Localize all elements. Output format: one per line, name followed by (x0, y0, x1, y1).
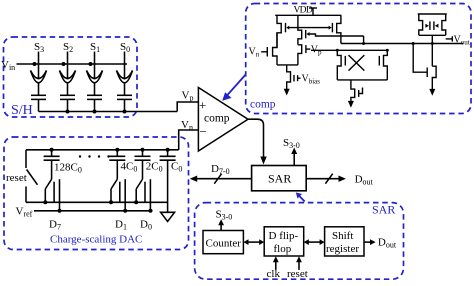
svg-text:register: register (326, 243, 359, 255)
capacitor of S3 branch (31, 83, 46, 112)
node D0 label (140, 219, 152, 232)
transistor M5 NMOS Vn input (261, 33, 277, 65)
svg-text:clk: clk (267, 268, 281, 280)
node Vin label (1, 59, 15, 72)
switch S0 label (120, 41, 130, 54)
reset label (6, 172, 27, 184)
capacitor 128C0 (44, 150, 60, 179)
node S3-0 label in SAR detail (216, 209, 233, 222)
Counter label (206, 238, 242, 250)
node Vn label (181, 119, 193, 132)
clk label (267, 268, 281, 280)
D flip-flop label (269, 230, 299, 255)
capacitor 2C0 (135, 150, 151, 179)
SAR detail dashed border (195, 203, 404, 280)
switch S2 (60, 52, 76, 83)
ground arrow output (429, 89, 435, 96)
switch S3 (31, 52, 47, 83)
VDD supply tick (309, 8, 317, 15)
node Dout label in SAR detail (378, 237, 397, 250)
node Vp label (182, 90, 194, 103)
transistor M11 PMOS output right (434, 14, 446, 35)
svg-text:SAR: SAR (268, 172, 291, 186)
svg-text:Counter: Counter (206, 238, 242, 250)
wire tail node (277, 64, 298, 66)
wire Dout bus from SAR (306, 174, 346, 184)
wire Counter to D flip-flop double arrow (243, 239, 264, 245)
transistor M8 NMOS latch right (379, 49, 389, 80)
comparator comp text (204, 113, 230, 125)
ellipsis dots (79, 155, 110, 157)
Shift register box (325, 227, 364, 256)
switch S0 (117, 52, 133, 83)
wire reset arrow (296, 256, 302, 270)
comparator plus input (199, 98, 206, 113)
reset switch (26, 150, 38, 203)
svg-text:reset: reset (287, 268, 308, 280)
switch S3 label (34, 41, 44, 54)
switch of bit D1 (111, 179, 125, 211)
op-amp comparator triangle (198, 88, 248, 152)
svg-text:reset: reset (6, 172, 27, 184)
Shift register label (326, 230, 359, 255)
wire Vref line (34, 209, 153, 213)
ground arrow bias (284, 89, 290, 96)
switch S2 label (63, 41, 73, 54)
Counter box (203, 231, 243, 254)
wire latch source rail (337, 79, 387, 81)
wire Vin rail (17, 63, 128, 65)
wire comparator output to SAR (248, 119, 267, 164)
svg-text:128C0: 128C0 (54, 162, 82, 175)
svg-text:Shift: Shift (332, 230, 353, 242)
switch S1 label (90, 41, 100, 54)
svg-text:D flip-: D flip- (269, 230, 299, 242)
capacitor of S0 branch (117, 83, 132, 112)
transistor M10 PMOS output left (419, 14, 430, 35)
svg-text:−: − (200, 124, 207, 139)
node D7-0 label (211, 163, 230, 176)
capacitor of S2 branch (60, 83, 75, 112)
transistor M1 PMOS left load (277, 15, 289, 47)
capacitor C0 termination (160, 150, 176, 213)
node D7 label (49, 219, 61, 232)
wire DAC ground rail (26, 200, 168, 204)
transistor M9 NMOS latch tail (351, 80, 363, 102)
wire Vn step (179, 130, 199, 150)
wire Dout arrow from Shift register (364, 239, 376, 245)
wire M1-M2 gate (289, 27, 328, 29)
node Vn label inside comp (249, 47, 260, 59)
ground symbol of DAC (161, 212, 175, 221)
wire VDD rail (275, 14, 341, 16)
node D1 label (115, 219, 127, 232)
wire clk arrow (273, 256, 279, 270)
S/H block dashed border (4, 37, 138, 117)
reset label in SAR detail (287, 268, 308, 280)
node Vbias label (302, 74, 321, 86)
capacitor 4C0 (109, 150, 125, 179)
comp detail label (250, 99, 276, 111)
SAR detail label (372, 203, 395, 217)
transistor M12 NMOS output (412, 42, 436, 90)
S/H block label (11, 103, 33, 118)
capacitor of S1 branch (87, 83, 102, 112)
node Vp label inside comp (311, 45, 322, 57)
capacitor 2C0 value label (146, 161, 163, 174)
wire D7-0 bus SAR to DAC (190, 174, 252, 184)
wire latch cross coupling (349, 55, 365, 71)
blue callout arrow to comp triangle (222, 75, 246, 101)
svg-text:S/H: S/H (11, 103, 33, 118)
svg-text:SAR: SAR (372, 203, 395, 217)
node S3-0 label (283, 137, 300, 150)
wire S3-0 arrow from Counter (218, 219, 224, 230)
capacitor 128C0 value label (54, 162, 82, 175)
comp detail dashed border (246, 4, 471, 114)
wire DAC top rail (26, 148, 179, 152)
wire S3-0 output arrow (291, 148, 297, 166)
SAR box label (268, 172, 291, 186)
svg-text:Charge-scaling DAC: Charge-scaling DAC (50, 234, 142, 246)
node Dout label (355, 174, 374, 187)
wire latch top (311, 49, 387, 51)
comparator minus input (200, 124, 207, 139)
svg-text:comp: comp (204, 113, 230, 125)
transistor M6 NMOS bias (287, 65, 301, 90)
switch S1 (87, 52, 103, 83)
capacitor 4C0 value label (121, 161, 138, 174)
switch of bit D0 (136, 179, 150, 211)
wire second stage net (341, 36, 463, 45)
ground arrow latch (348, 101, 354, 108)
blue callout arrow to SAR box (296, 192, 305, 201)
svg-text:+: + (199, 98, 206, 113)
wire D flip-flop to Shift register double arrow (304, 239, 325, 245)
svg-text:comp: comp (250, 99, 276, 111)
transistor M2 PMOS right load (329, 15, 341, 43)
D flip-flop box (264, 227, 304, 256)
transistor M3 PMOS middle (298, 15, 364, 45)
switch of bit D7 (45, 179, 59, 211)
wire Vout lead (446, 36, 453, 41)
transistor M4 NMOS Vp input (298, 45, 310, 65)
svg-text:flop: flop (274, 243, 292, 255)
wire S/H bottom rail to Vp (39, 110, 178, 114)
capacitor C0 value label (171, 161, 182, 174)
wire output stage drain bar (419, 35, 446, 66)
svg-text:VDD: VDD (294, 6, 313, 16)
node Vref label (16, 206, 33, 219)
VDD label (294, 6, 313, 16)
transistor M7 NMOS latch left (336, 49, 346, 80)
Charge-scaling DAC label (50, 234, 142, 246)
SAR box (252, 166, 307, 191)
node Vout label (454, 34, 470, 46)
wire VDD rail right (418, 13, 447, 15)
wire Vp step (177, 102, 198, 112)
Charge-scaling DAC dashed border (4, 137, 189, 250)
